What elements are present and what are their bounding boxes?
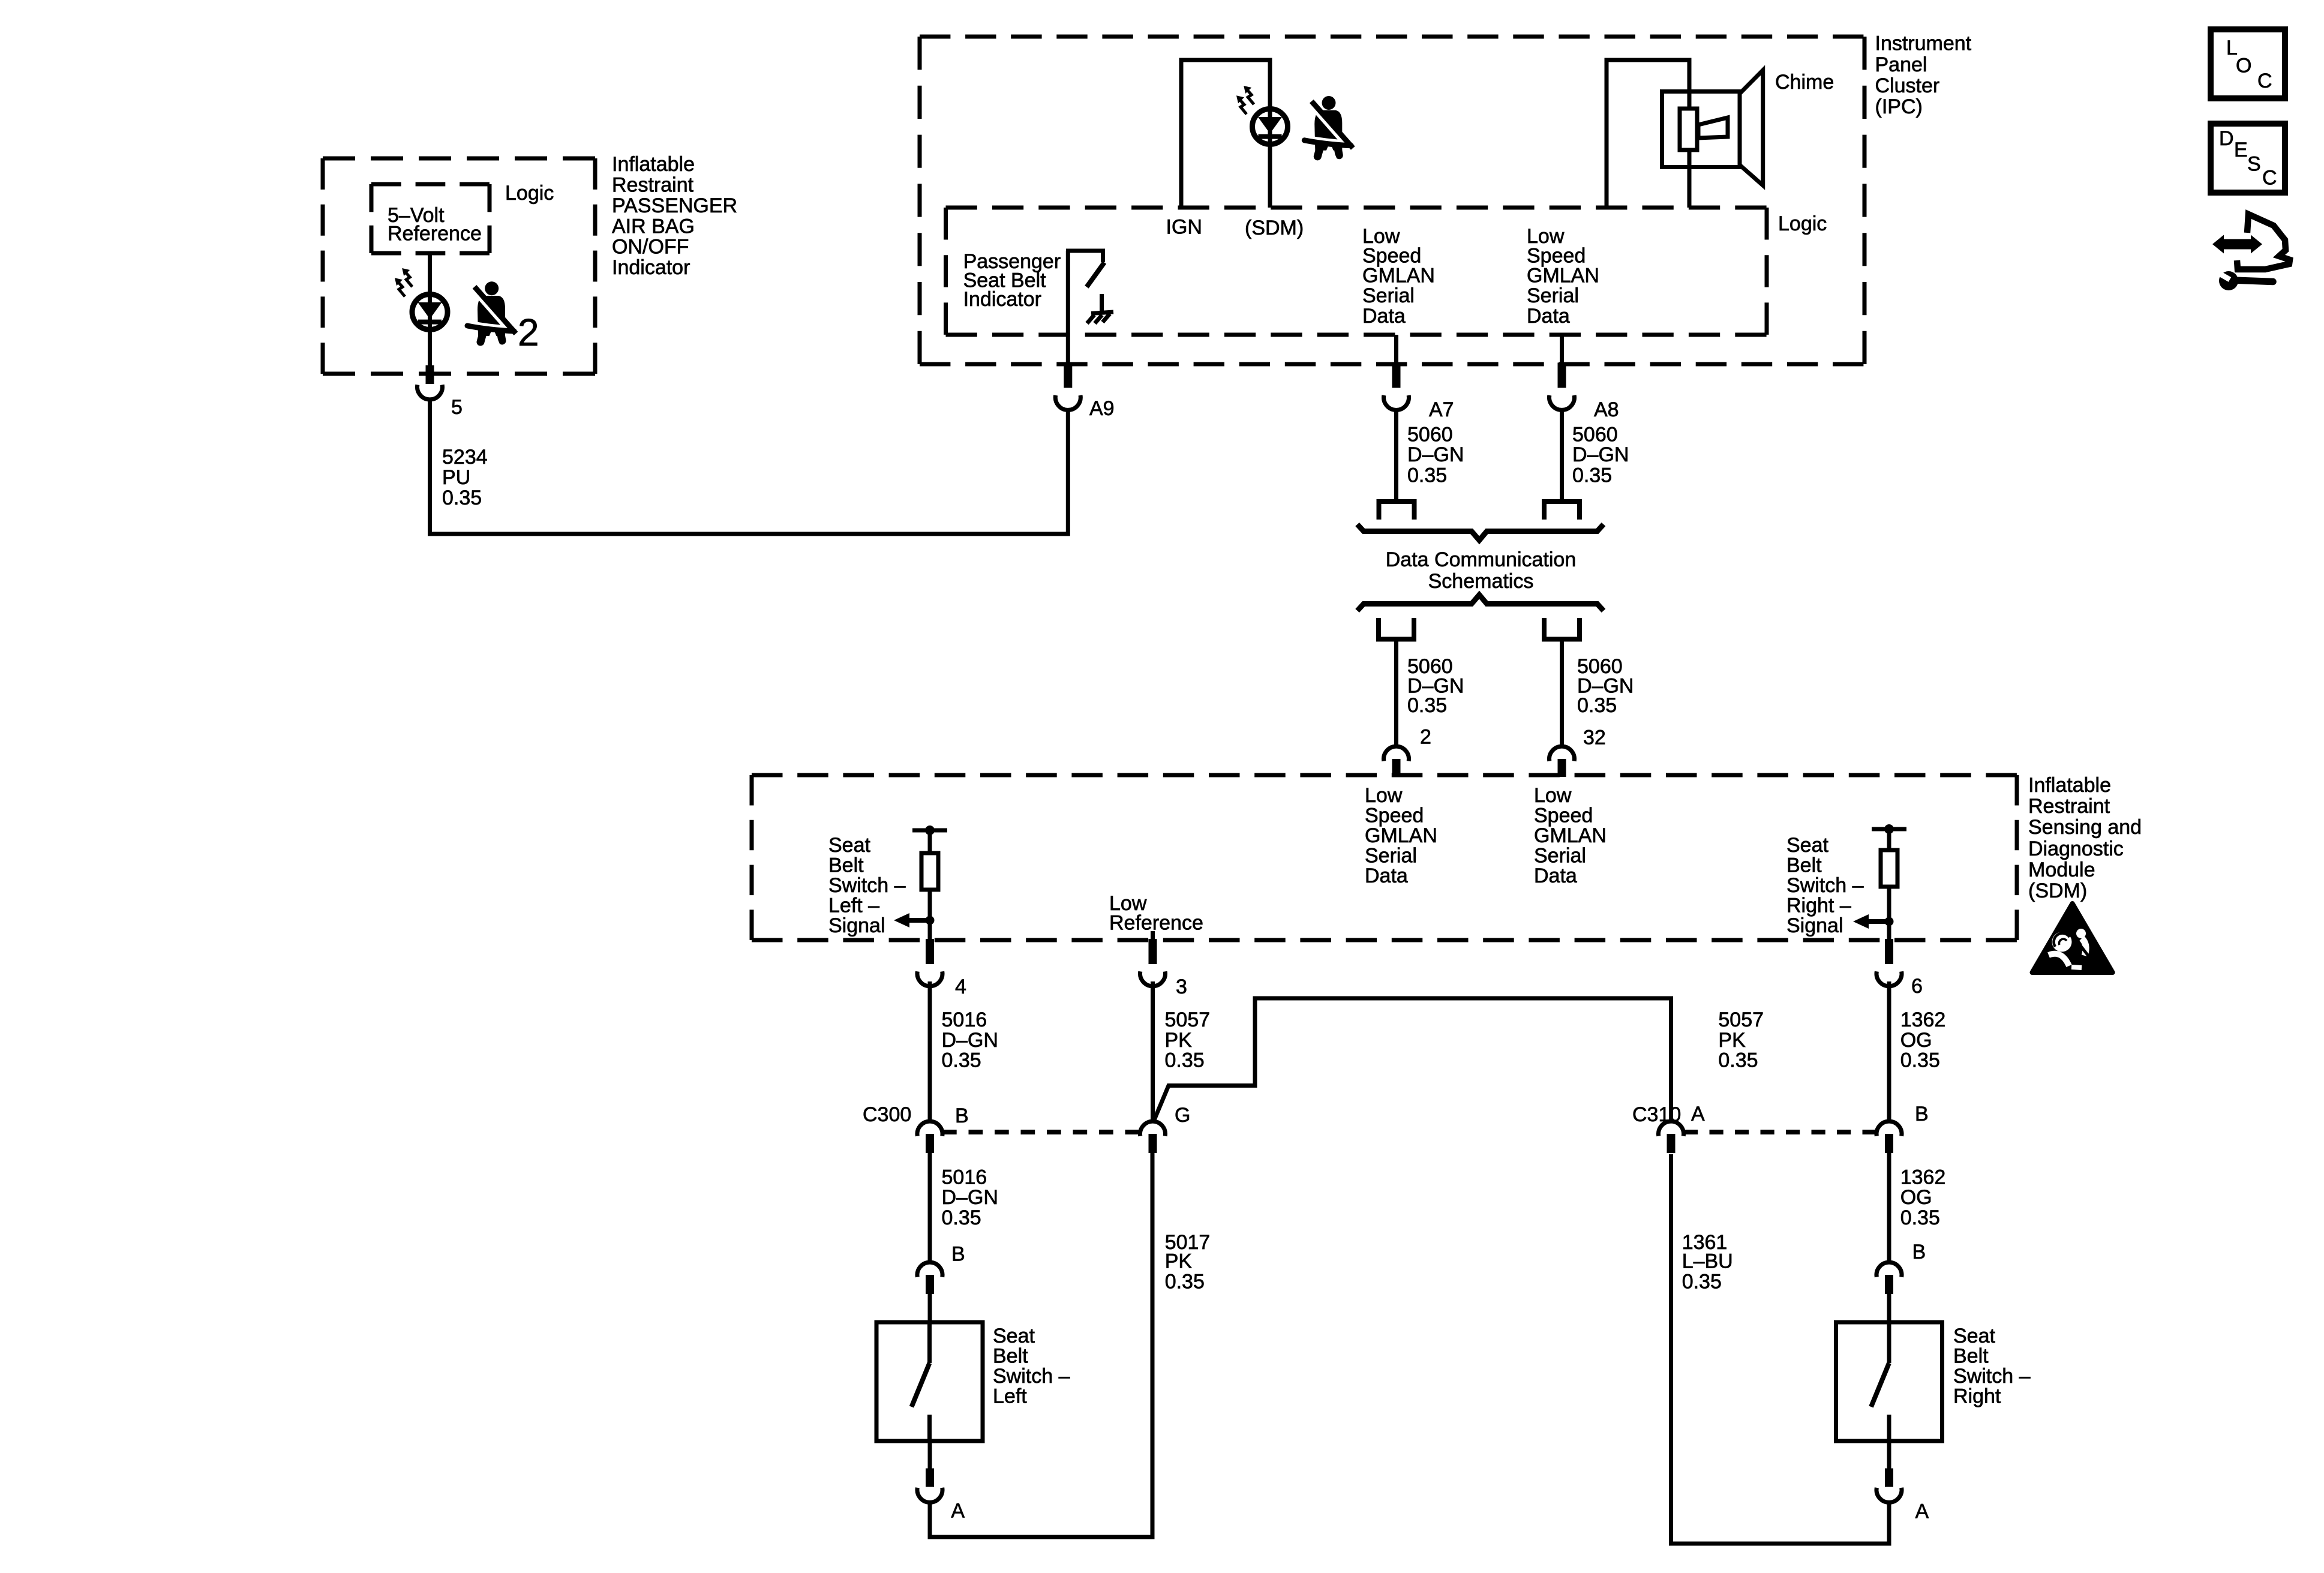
svg-text:S: S: [2247, 153, 2261, 176]
label Low Speed GMLAN Serial Data (IPC A7): [1362, 225, 1435, 328]
svg-text:Reference: Reference: [1109, 912, 1203, 935]
connector B (seat belt switch left): [917, 1262, 942, 1294]
wire label 5057 PK 0.35 (left): [1165, 1008, 1211, 1072]
wire 5-Volt Reference to LED to pin 5: [428, 253, 432, 365]
svg-text:32: 32: [1583, 727, 1606, 749]
svg-text:Sensing and: Sensing and: [2028, 816, 2142, 839]
svg-text:5016: 5016: [942, 1166, 987, 1189]
svg-text:GMLAN: GMLAN: [1365, 824, 1437, 847]
svg-text:Speed: Speed: [1365, 804, 1424, 827]
svg-text:0.35: 0.35: [1682, 1271, 1722, 1293]
wire label 5017 PK 0.35: [1165, 1231, 1211, 1293]
svg-text:Data: Data: [1362, 305, 1406, 328]
wire A8 to off-page: [1560, 411, 1564, 502]
svg-text:Switch –: Switch –: [1953, 1365, 2031, 1388]
wire 5016 to C300 B: [928, 981, 932, 1119]
svg-text:2: 2: [518, 311, 539, 354]
svg-text:Belt: Belt: [828, 854, 864, 877]
C300 connector dashed line: [942, 1130, 1139, 1134]
svg-text:Chime: Chime: [1775, 71, 1834, 94]
svg-text:0.35: 0.35: [1900, 1049, 1940, 1072]
wire into right switch: [1887, 1294, 1891, 1322]
LED emission arrows (IPC): [1236, 86, 1254, 114]
svg-text:Seat: Seat: [828, 834, 870, 857]
svg-text:Indicator: Indicator: [963, 288, 1041, 311]
svg-text:Data Communication: Data Communication: [1386, 548, 1576, 571]
svg-text:0.35: 0.35: [1407, 464, 1447, 487]
svg-text:Serial: Serial: [1362, 284, 1415, 307]
svg-text:Signal: Signal: [1786, 914, 1843, 937]
sub-box: 5-Volt Reference source: [371, 184, 490, 253]
svg-text:Left: Left: [993, 1385, 1027, 1408]
svg-text:1362: 1362: [1900, 1008, 1946, 1031]
svg-text:Low: Low: [1365, 784, 1403, 807]
svg-text:OG: OG: [1900, 1029, 1932, 1052]
wire low reference stub: [1151, 931, 1155, 940]
connector C300 cavity B: [917, 1121, 942, 1153]
wire 5016 to switch B: [928, 1153, 932, 1260]
brace lower (from Data Communication Schematics): [1358, 595, 1604, 611]
wire IGN to seat belt telltale LED to SDM input: [1181, 60, 1270, 208]
svg-text:Speed: Speed: [1534, 804, 1593, 827]
svg-text:0.35: 0.35: [442, 487, 482, 509]
wire SDM left signal internal: [928, 830, 932, 940]
svg-text:Signal: Signal: [828, 914, 885, 937]
svg-text:5: 5: [451, 396, 463, 419]
wire chime drive (left+top): [1607, 60, 1689, 208]
svg-text:5057: 5057: [1718, 1008, 1764, 1031]
internal supply T (right): [1872, 824, 1906, 834]
connector pin A8 (IPC): [1550, 363, 1575, 410]
svg-text:0.35: 0.35: [1165, 1049, 1205, 1072]
wire label 1362 OG 0.35 (lower): [1900, 1166, 1946, 1230]
C310 connector dashed line: [1684, 1130, 1876, 1134]
svg-text:O: O: [2236, 55, 2251, 77]
svg-text:0.35: 0.35: [1165, 1271, 1205, 1293]
svg-text:4: 4: [955, 975, 966, 998]
svg-text:PASSENGER: PASSENGER: [612, 194, 737, 217]
svg-text:D: D: [2219, 127, 2234, 150]
svg-text:5060: 5060: [1407, 424, 1453, 446]
seat belt person icon (IPC): [1304, 96, 1353, 161]
svg-text:0.35: 0.35: [1718, 1049, 1758, 1072]
svg-text:(IPC): (IPC): [1875, 95, 1923, 118]
icon DESC: [2211, 124, 2285, 193]
label Low Reference: [1109, 892, 1203, 935]
LED indicator lamp (PASS AIR BAG): [412, 295, 448, 330]
off-page connector (A8 down): [1544, 502, 1580, 520]
svg-text:Module: Module: [2028, 858, 2095, 881]
svg-text:Left –: Left –: [828, 894, 879, 917]
svg-text:Reference: Reference: [388, 223, 482, 245]
wire 5057 to C300 G: [1151, 981, 1155, 1119]
label Passenger Seat Belt Indicator: [963, 250, 1061, 311]
svg-text:2: 2: [1420, 726, 1431, 749]
svg-text:Restraint: Restraint: [2028, 795, 2110, 818]
svg-text:Serial: Serial: [1365, 845, 1417, 867]
svg-text:0.35: 0.35: [1572, 464, 1612, 487]
label Inflatable Restraint PASSENGER AIR BAG ON/OFF Indicator: [612, 153, 737, 279]
svg-text:Belt: Belt: [1786, 854, 1822, 877]
SDM airbag warning triangle icon: [2032, 903, 2113, 972]
svg-text:1362: 1362: [1900, 1166, 1946, 1189]
svg-text:B: B: [1912, 1241, 1926, 1263]
svg-text:A: A: [1915, 1500, 1929, 1523]
svg-text:5234: 5234: [442, 446, 488, 469]
wire off-page to SDM pin 32: [1560, 640, 1564, 746]
svg-text:5060: 5060: [1572, 424, 1618, 446]
svg-text:Indicator: Indicator: [612, 256, 690, 279]
resistor: seat belt switch right pull-up: [1881, 850, 1897, 887]
module box: Inflatable Restraint PASSENGER AIR BAG ON/OFF Indicator: [323, 158, 595, 374]
signal tap arrow (left): [894, 913, 935, 927]
svg-text:A9: A9: [1089, 397, 1115, 420]
svg-text:Schematics: Schematics: [1428, 570, 1534, 593]
wire GMLAN A7 inside IPC: [1394, 335, 1398, 364]
svg-text:Restraint: Restraint: [612, 174, 694, 197]
label Instrument Panel Cluster (IPC): [1875, 32, 1972, 119]
svg-text:G: G: [1175, 1104, 1190, 1127]
connector pin 4 (SDM): [917, 939, 942, 986]
wire GMLAN A8 inside IPC: [1560, 335, 1564, 364]
svg-text:Serial: Serial: [1534, 845, 1586, 867]
wire 5234 PU from pin 5 to IPC A9: [430, 400, 1068, 534]
svg-text:(SDM): (SDM): [1245, 217, 1304, 239]
wire 5057 branch to C310 A: [1154, 998, 1671, 1121]
svg-text:GMLAN: GMLAN: [1534, 824, 1607, 847]
svg-text:C310: C310: [1632, 1103, 1681, 1126]
svg-text:Belt: Belt: [1953, 1345, 1989, 1368]
svg-text:A7: A7: [1429, 398, 1454, 421]
wire into left switch: [928, 1294, 932, 1322]
svg-text:ON/OFF: ON/OFF: [612, 236, 689, 259]
wire label 5016 D-GN 0.35 (upper): [942, 1008, 998, 1072]
wire out of right switch: [1887, 1441, 1891, 1469]
svg-text:Data: Data: [1534, 864, 1577, 887]
wire 1361 L-BU return (right): [1671, 1154, 1890, 1544]
LED emission arrows (box1): [395, 268, 412, 296]
svg-text:Logic: Logic: [505, 182, 554, 205]
svg-text:PU: PU: [442, 466, 470, 489]
label Inflatable Restraint Sensing and Diagnostic Module (SDM): [2028, 774, 2142, 902]
svg-text:IGN: IGN: [1166, 216, 1202, 239]
wire label 1362 OG 0.35 (upper): [1900, 1008, 1946, 1072]
connector pin 6 (SDM): [1876, 939, 1902, 986]
svg-text:D–GN: D–GN: [1572, 443, 1629, 466]
svg-text:0.35: 0.35: [942, 1206, 981, 1229]
svg-text:Diagnostic: Diagnostic: [2028, 837, 2124, 860]
svg-text:Low: Low: [1534, 784, 1572, 807]
svg-text:Seat: Seat: [1786, 834, 1828, 857]
svg-text:D–GN: D–GN: [942, 1186, 998, 1209]
wire label 5060 D-GN 0.35 (SDM 32): [1577, 655, 1634, 717]
connector A (seat belt switch right): [1876, 1469, 1902, 1503]
label 5-Volt Reference: [388, 204, 482, 245]
svg-text:OG: OG: [1900, 1186, 1932, 1209]
svg-text:Cluster: Cluster: [1875, 74, 1940, 97]
svg-text:C: C: [2262, 167, 2277, 190]
label Low Speed GMLAN Serial Data (IPC A8): [1527, 225, 1599, 328]
off-page connector (SDM 32 up): [1544, 618, 1580, 640]
connector pin 5 (box1 output): [418, 365, 443, 400]
wire 1362 to switch B (right): [1887, 1153, 1891, 1260]
svg-text:AIR BAG: AIR BAG: [612, 215, 695, 238]
svg-text:Logic: Logic: [1778, 212, 1827, 235]
switch: Seat Belt Switch - Right: [1836, 1322, 1942, 1441]
svg-text:D–GN: D–GN: [942, 1029, 998, 1052]
wire label 5060 D-GN 0.35 (SDM 2): [1407, 655, 1464, 717]
icon LOC: [2211, 29, 2285, 98]
svg-text:0.35: 0.35: [1407, 694, 1447, 717]
svg-text:Panel: Panel: [1875, 53, 1927, 76]
connector pin 32 (SDM): [1550, 746, 1575, 777]
connector C300 cavity G: [1140, 1121, 1166, 1153]
svg-text:Serial: Serial: [1527, 284, 1579, 307]
svg-text:5057: 5057: [1165, 1008, 1211, 1031]
svg-text:Instrument: Instrument: [1875, 32, 1972, 55]
LED seat belt telltale (IPC): [1253, 109, 1288, 145]
signal tap arrow (right): [1853, 914, 1894, 929]
wire 5017 PK return (left): [930, 1153, 1152, 1537]
connector pin A9 (IPC): [1055, 363, 1080, 410]
wire label 1361 L-BU 0.35: [1682, 1231, 1733, 1293]
module box: Instrument Panel Cluster (IPC): [920, 37, 1864, 364]
svg-text:6: 6: [1911, 975, 1923, 998]
connector pin 3 (SDM): [1140, 939, 1166, 986]
label Seat Belt Switch - Left - Signal: [828, 834, 906, 937]
internal supply T (left): [912, 825, 947, 835]
svg-text:Right: Right: [1953, 1385, 2001, 1408]
wire SDM right signal internal: [1887, 829, 1891, 940]
svg-text:C: C: [2257, 70, 2272, 92]
label Seat Belt Switch - Right: [1953, 1325, 2031, 1408]
wire 1362 to C310 B: [1887, 981, 1891, 1119]
switch: passenger seat belt indicator: [1066, 251, 1105, 364]
svg-text:Seat: Seat: [1953, 1325, 1995, 1347]
svg-text:0.35: 0.35: [1900, 1206, 1940, 1229]
wire A7 to off-page: [1394, 411, 1398, 502]
svg-text:GMLAN: GMLAN: [1527, 265, 1599, 287]
svg-text:Data: Data: [1365, 864, 1408, 887]
off-page connector (A7 down): [1379, 502, 1415, 520]
resistor: seat belt switch left pull-up: [921, 853, 938, 890]
svg-text:3: 3: [1176, 975, 1187, 998]
svg-text:0.35: 0.35: [1577, 694, 1617, 717]
svg-text:Data: Data: [1527, 305, 1570, 328]
connector C310 cavity A: [1658, 1121, 1683, 1153]
chime speaker icon: [1662, 70, 1763, 185]
svg-text:Belt: Belt: [993, 1345, 1028, 1368]
svg-text:A: A: [1691, 1103, 1705, 1125]
svg-text:L–BU: L–BU: [1682, 1250, 1733, 1273]
svg-text:Inflatable: Inflatable: [612, 153, 695, 176]
svg-text:B: B: [951, 1243, 965, 1266]
svg-text:PK: PK: [1165, 1250, 1193, 1273]
svg-text:Switch –: Switch –: [993, 1365, 1070, 1388]
svg-text:Inflatable: Inflatable: [2028, 774, 2111, 797]
brace upper (to Data Communication Schematics): [1358, 524, 1604, 541]
svg-text:Right –: Right –: [1786, 894, 1851, 917]
label Seat Belt Switch - Right - Signal: [1786, 834, 1864, 937]
svg-text:0.35: 0.35: [942, 1049, 981, 1072]
svg-text:A8: A8: [1594, 398, 1619, 421]
sub-box: IPC Logic: [946, 208, 1767, 335]
connector C310 cavity B: [1876, 1121, 1902, 1153]
off-page connector (SDM 2 up): [1379, 618, 1414, 640]
svg-text:A: A: [951, 1500, 965, 1523]
label Low Speed GMLAN Serial Data (SDM 32): [1534, 784, 1607, 887]
svg-text:5016: 5016: [942, 1008, 987, 1031]
wire chime drive (below magnet): [1688, 150, 1692, 208]
svg-text:Switch –: Switch –: [828, 874, 906, 897]
ground (chassis): [1087, 294, 1113, 323]
svg-text:PK: PK: [1165, 1029, 1193, 1052]
svg-text:Seat: Seat: [993, 1325, 1035, 1347]
label Low Speed GMLAN Serial Data (SDM 2): [1365, 784, 1437, 887]
label Seat Belt Switch - Left: [993, 1325, 1070, 1408]
svg-text:C300: C300: [863, 1103, 911, 1126]
svg-text:D–GN: D–GN: [1407, 443, 1464, 466]
wire label 5060 D-GN 0.35 (A7): [1407, 424, 1464, 487]
wire off-page to SDM pin 2: [1394, 640, 1398, 746]
connector pin A7 (IPC): [1384, 363, 1409, 410]
svg-text:B: B: [955, 1104, 969, 1127]
seat belt person icon (box1): [467, 281, 516, 347]
svg-text:B: B: [1915, 1103, 1929, 1125]
connector B (seat belt switch right): [1876, 1262, 1902, 1294]
wire label 5060 D-GN 0.35 (A8): [1572, 424, 1629, 487]
wire label 5016 D-GN 0.35 (lower): [942, 1166, 998, 1230]
wire label 5057 PK 0.35 (right): [1718, 1008, 1764, 1072]
module box: Inflatable Restraint Sensing and Diagnostic Module (SDM): [752, 775, 2017, 940]
svg-text:GMLAN: GMLAN: [1362, 265, 1435, 287]
icon vehicle navigation arrow with wrench: [2212, 214, 2290, 290]
svg-text:(SDM): (SDM): [2028, 879, 2087, 902]
label Data Communication Schematics: [1386, 548, 1576, 593]
svg-text:E: E: [2234, 139, 2248, 161]
connector pin 2 (SDM): [1384, 746, 1409, 777]
svg-text:Switch –: Switch –: [1786, 874, 1864, 897]
connector A (seat belt switch left): [917, 1469, 942, 1503]
switch: Seat Belt Switch - Left: [876, 1322, 983, 1441]
wire out of left switch: [928, 1441, 932, 1469]
svg-text:PK: PK: [1718, 1029, 1746, 1052]
wire label 5234 PU 0.35: [442, 446, 488, 509]
